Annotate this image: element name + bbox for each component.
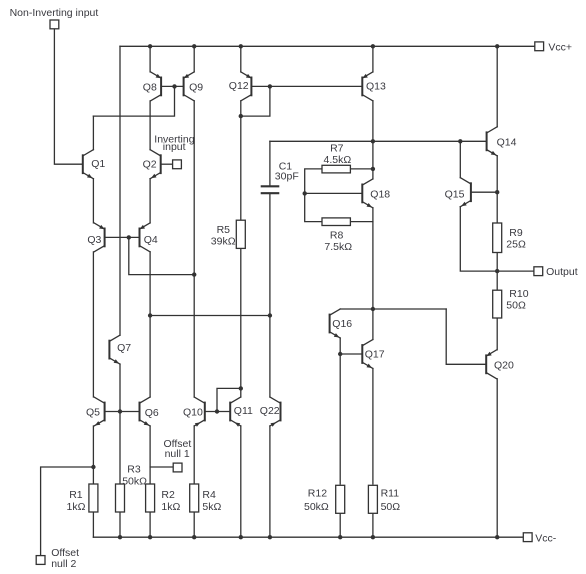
wire Q20 collector to rail (496, 379, 498, 537)
wire R10 to Q20 emitter (496, 318, 498, 350)
wire Q11 emitter to rail (240, 426, 242, 537)
wire Q1 collector (92, 116, 94, 150)
wire Q15 emitter to output line (460, 207, 497, 271)
wire Q18 emitter down to Q17 collector (372, 208, 374, 340)
wire R8 right lead (350, 221, 373, 223)
svg-text:R5: R5 (217, 224, 231, 236)
svg-text:Q15: Q15 (445, 188, 465, 200)
transistor Q12 (241, 72, 252, 101)
svg-text:null 2: null 2 (51, 558, 76, 570)
svg-text:null 1: null 1 (165, 448, 190, 460)
svg-text:5kΩ: 5kΩ (202, 501, 221, 513)
wire Q12 collector to R5 (240, 101, 242, 220)
wire Q14 collector to rail (496, 46, 498, 127)
transistor Q9 (184, 72, 195, 101)
resistor R8 7.5k (322, 218, 350, 226)
junction Q9 collector / Q3-Q4 base wire (192, 272, 196, 276)
resistor R10 50ohm (493, 290, 502, 318)
svg-text:1kΩ: 1kΩ (67, 501, 86, 513)
wire Q2 base to inverting input (161, 163, 173, 165)
transistor Q8 (151, 72, 162, 101)
wire Vcc+ rail (120, 45, 535, 47)
transistor Q3 (94, 223, 105, 252)
svg-text:Q12: Q12 (229, 80, 249, 92)
svg-text:Output: Output (546, 266, 578, 278)
junction Q12 emitter / Vcc+ rail (239, 44, 243, 48)
svg-text:Q18: Q18 (370, 189, 390, 201)
junction Q3/Q4 bases (127, 235, 131, 239)
wire first-stage output node (150, 315, 270, 317)
terminal Vcc- (523, 533, 532, 542)
svg-text:Q5: Q5 (86, 407, 100, 419)
transistor Q13 (362, 72, 373, 101)
wire offset null 1 (150, 466, 173, 468)
wire C1 top lead (269, 141, 271, 185)
wire R4 to rail (193, 512, 195, 537)
junction Q22 emitter / Vcc- rail (268, 535, 272, 539)
svg-text:R10: R10 (509, 288, 528, 300)
resistor R4 5k (190, 484, 199, 512)
junction R12 / Vcc- rail (338, 535, 342, 539)
svg-text:Q4: Q4 (144, 234, 158, 246)
wire Q8/Q9 base link (161, 85, 184, 87)
junction Q13 collector / C1 top line (371, 139, 375, 143)
svg-text:Q8: Q8 (143, 81, 157, 93)
wire Q3/Q4 base link (105, 236, 140, 238)
svg-text:Q22: Q22 (260, 405, 280, 417)
svg-text:R2: R2 (161, 489, 175, 501)
wire R9 to output node (496, 253, 498, 272)
svg-text:50kΩ: 50kΩ (304, 501, 329, 513)
wire C1 bottom lead to Q22 collector (269, 194, 271, 397)
wire Q20 base riser (446, 309, 486, 364)
wire Q12/Q13 base link (270, 85, 362, 87)
junction Q12 base loop (268, 84, 272, 88)
wire R11 to rail (372, 512, 374, 537)
wire output line (497, 270, 533, 272)
svg-text:7.5kΩ: 7.5kΩ (324, 241, 352, 253)
wire Q1C to Q8/Q9 base node (93, 86, 174, 116)
wire Q10/Q11 base link (205, 411, 230, 413)
svg-text:Q20: Q20 (494, 359, 514, 371)
transistor Q14 (487, 127, 498, 156)
transistor Q7 (109, 335, 120, 364)
terminal Vcc+ (535, 42, 544, 51)
svg-text:R8: R8 (330, 230, 344, 242)
transistor Q10 (194, 397, 205, 427)
wire Q13 emitter to rail (372, 46, 374, 72)
transistor Q1 (83, 150, 94, 179)
transistor Q20 (486, 350, 497, 379)
terminal Output (534, 267, 543, 276)
wire Q8 collector to Q2 collector (149, 101, 151, 150)
wire Q4 collector to Q6 collector (149, 252, 151, 397)
resistor R2 1k (146, 484, 155, 512)
svg-text:R11: R11 (381, 488, 400, 500)
junction Q8/Q9 bases (172, 84, 176, 88)
wire Q2 emitter to Q4 emitter (149, 179, 151, 223)
wire Q13 collector down to Q18 collector (372, 101, 374, 179)
svg-text:R7: R7 (330, 143, 344, 155)
junction Q11 emitter / Vcc- rail (239, 535, 243, 539)
transistor Q22 (270, 397, 281, 427)
junction Q13 emitter / Vcc+ rail (371, 44, 375, 48)
junction Q14 collector / Vcc+ rail (495, 44, 499, 48)
transistor Q2 (150, 150, 161, 179)
wire Q9 emitter to rail (193, 46, 195, 72)
junction first-stage output / C1 bottom (268, 313, 272, 317)
wire Q15 base (471, 191, 497, 193)
junction Q7 emitter / Q5-Q6 bases (118, 409, 122, 413)
junction R4 / Vcc- rail (192, 535, 196, 539)
resistor R1 1k (89, 484, 98, 512)
svg-text:Q3: Q3 (87, 234, 101, 246)
svg-text:Q11: Q11 (234, 405, 253, 417)
transistor Q17 (362, 340, 373, 369)
wire Q3 collector to Q5 collector (92, 252, 94, 397)
svg-text:input: input (163, 141, 186, 153)
resistor R9 25ohm (493, 223, 502, 253)
wire offset null 2 (41, 467, 94, 555)
wire Q12 base-collector loop (241, 86, 270, 116)
junction R2 / Vcc- rail (148, 535, 152, 539)
junction Q15 collector / Q14 base line (458, 139, 462, 143)
wire R3 to rail (119, 512, 121, 537)
svg-text:Q9: Q9 (189, 81, 203, 93)
wire Q16 collector rail (340, 308, 446, 310)
resistor R7 4.5k (322, 165, 350, 173)
wire Q8 emitter to rail (149, 46, 151, 72)
svg-text:R4: R4 (202, 489, 216, 501)
svg-text:Q17: Q17 (365, 348, 385, 360)
junction output node (495, 269, 499, 273)
wire Q1 emitter to Q3 emitter (92, 179, 94, 223)
transistor Q18 (362, 179, 373, 208)
transistor Q16 (330, 309, 341, 338)
svg-text:Q16: Q16 (332, 318, 352, 330)
svg-text:Q10: Q10 (183, 407, 203, 419)
wire Q12 emitter to rail (240, 46, 242, 72)
svg-text:R1: R1 (69, 489, 83, 501)
junction R7 right lead / Q13 collector (371, 167, 375, 171)
wire R7 left lead (305, 169, 322, 222)
svg-text:25Ω: 25Ω (506, 238, 526, 250)
terminal offset null 1 (173, 463, 182, 472)
wire Q18 base (305, 192, 363, 194)
svg-text:Vcc+: Vcc+ (548, 41, 572, 53)
svg-text:R12: R12 (308, 488, 327, 500)
transistor Q6 (140, 397, 151, 426)
junction Q18 base / R7-R8 left loop (303, 191, 307, 195)
svg-text:50kΩ: 50kΩ (122, 475, 147, 487)
transistor Q15 (460, 178, 471, 207)
transistor Q5 (94, 397, 105, 426)
junction Q17 base / Q16 emitter (338, 352, 342, 356)
svg-text:Q2: Q2 (143, 159, 157, 171)
wire output node to R10 (496, 271, 498, 290)
wire C1 top to Q14 base (270, 140, 487, 142)
wire Q5 emitter to R1 (92, 426, 94, 484)
wire Q17 base (340, 353, 362, 355)
svg-text:Vcc-: Vcc- (535, 532, 557, 544)
transistor Q4 (140, 223, 151, 252)
wire V+ rail to Q7 collector (119, 46, 121, 335)
wire Q16 emitter to R12 (339, 338, 341, 484)
wire R2 to rail (149, 512, 151, 537)
svg-text:50Ω: 50Ω (381, 501, 401, 513)
terminal inverting input (173, 160, 182, 169)
wire Q6 emitter to R2 (149, 426, 151, 484)
wire Q7 emitter to R3 (119, 364, 121, 484)
wire R5 to Q11 collector (240, 248, 242, 397)
junction Q12 collector loop (239, 114, 243, 118)
junction R3 / Vcc- rail (118, 535, 122, 539)
svg-text:Q6: Q6 (145, 407, 159, 419)
terminal non-inverting input (50, 20, 59, 29)
junction Q8 emitter / Vcc+ rail (148, 44, 152, 48)
svg-text:4.5kΩ: 4.5kΩ (324, 154, 352, 166)
svg-text:50Ω: 50Ω (506, 299, 526, 311)
resistor R5 39k (236, 220, 245, 248)
svg-text:Q14: Q14 (497, 137, 517, 149)
junction R11 / Vcc- rail (371, 535, 375, 539)
wire Q14 emitter to R9 (496, 156, 498, 223)
resistor R12 50k (336, 485, 345, 513)
svg-text:1kΩ: 1kΩ (161, 501, 180, 513)
junction offset null 2 / Q5 emitter (91, 465, 95, 469)
terminal offset null 2 (36, 556, 45, 565)
svg-text:39kΩ: 39kΩ (211, 236, 236, 248)
svg-text:Q13: Q13 (366, 81, 386, 93)
wire Q9 collector down to Q10 collector (193, 101, 195, 397)
wire R7 right lead (350, 168, 373, 170)
junction Q16 rail / second stage column (371, 307, 375, 311)
junction Q10/Q11 bases (215, 409, 219, 413)
junction first-stage output / Q4 collector (148, 313, 152, 317)
wire Q15 collector up to Q14 base line (459, 141, 461, 177)
wire Q5/Q6 base link (105, 411, 140, 413)
junction Q11 base loop / collector (239, 386, 243, 390)
resistor R3 50k (116, 484, 125, 512)
svg-text:Q1: Q1 (91, 158, 105, 170)
junction Q15 base / Q14 emitter (495, 190, 499, 194)
wire R1 to rail (92, 512, 94, 537)
svg-text:R3: R3 (127, 463, 141, 475)
svg-text:Non-Inverting input: Non-Inverting input (10, 7, 99, 19)
resistor R11 50ohm (368, 485, 377, 513)
wire Q17 emitter to R11 (372, 369, 374, 485)
wire R12 to rail (339, 512, 341, 537)
svg-text:30pF: 30pF (275, 170, 299, 182)
junction Q9 emitter / Vcc+ rail (192, 44, 196, 48)
capacitor C1 30pF (262, 185, 278, 187)
wire Q10 emitter to R4 (193, 426, 195, 484)
junction Q20 collector / Vcc- rail (495, 535, 499, 539)
transistor Q11 (230, 397, 241, 427)
svg-text:Q7: Q7 (117, 342, 131, 354)
wire Q22 emitter to rail (269, 426, 271, 537)
wire non-inverting input to Q1 base (54, 29, 82, 164)
wire Vcc- rail (93, 536, 523, 538)
wire Q3/Q4 bases to Q9/Q10 node (129, 237, 194, 274)
wire Q11 base-collector loop (217, 388, 241, 411)
svg-text:R9: R9 (509, 227, 523, 239)
